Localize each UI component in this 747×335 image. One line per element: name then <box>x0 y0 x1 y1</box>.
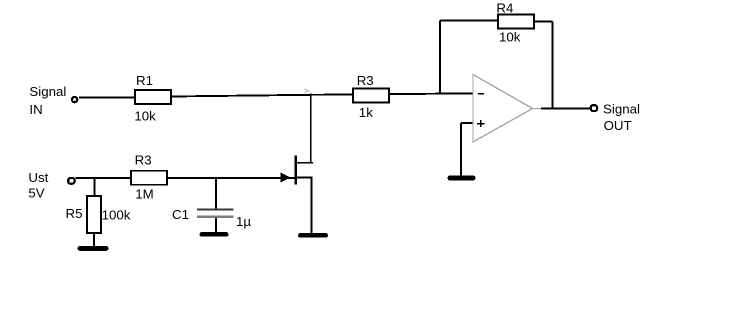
svg-text:100k: 100k <box>102 207 131 222</box>
svg-text:R4: R4 <box>496 0 513 15</box>
svg-text:10k: 10k <box>134 109 156 124</box>
svg-text:1µ: 1µ <box>236 214 251 229</box>
svg-text:R1: R1 <box>136 73 153 88</box>
svg-text:Ust: Ust <box>28 170 48 185</box>
svg-text:R3: R3 <box>357 73 374 88</box>
svg-text:Signal: Signal <box>29 84 66 99</box>
svg-text:IN: IN <box>29 102 42 117</box>
svg-text:5V: 5V <box>28 185 44 200</box>
svg-text:R3: R3 <box>135 153 152 168</box>
svg-text:10k: 10k <box>499 30 521 45</box>
svg-text:1M: 1M <box>135 187 153 202</box>
svg-text:C1: C1 <box>172 207 189 222</box>
svg-text:1k: 1k <box>359 105 373 120</box>
svg-text:R5: R5 <box>66 206 83 221</box>
svg-text:OUT: OUT <box>604 118 632 133</box>
svg-text:Signal: Signal <box>603 102 640 117</box>
